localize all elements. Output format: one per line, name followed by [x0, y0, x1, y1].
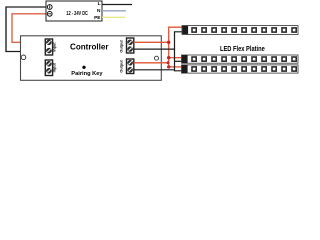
- svg-text:12 - 24V DC: 12 - 24V DC: [66, 11, 88, 17]
- svg-text:Output: Output: [120, 59, 124, 72]
- svg-text:Output: Output: [120, 39, 124, 52]
- svg-text:Controller: Controller: [70, 42, 109, 52]
- svg-text:LED Flex Platine: LED Flex Platine: [220, 46, 265, 53]
- svg-text:PE: PE: [94, 15, 101, 21]
- svg-text:Pairing Key: Pairing Key: [71, 71, 103, 77]
- svg-text:Input: Input: [53, 42, 57, 52]
- svg-text:L: L: [98, 1, 101, 7]
- svg-text:N: N: [97, 8, 101, 14]
- svg-text:Input: Input: [53, 62, 57, 72]
